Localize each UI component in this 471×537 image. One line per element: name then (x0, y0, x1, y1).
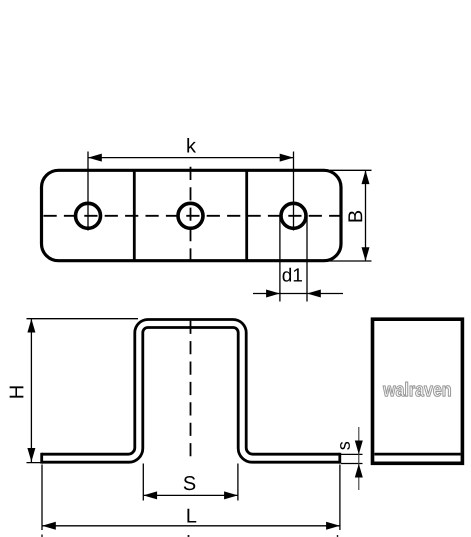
vertical dashed centerline (front view) (190, 321, 192, 458)
label S (184, 476, 196, 490)
side view rectangle (373, 319, 463, 463)
bottom stub middle (188, 535, 190, 537)
dimension d1 extension line left (279, 217, 281, 302)
label d1 (283, 268, 302, 282)
label k (187, 138, 196, 152)
dimension d1 extension line right (306, 217, 308, 302)
plate division line left (133, 170, 136, 260)
dimension s extension line top (341, 453, 363, 455)
dimension S extension line right (237, 464, 239, 501)
dimension B extension line top (330, 169, 372, 171)
label s (340, 442, 350, 450)
profile outer contour (front view) (42, 320, 340, 455)
plate outline (top view) (42, 170, 342, 260)
bottom stub left (41, 535, 43, 537)
label L (187, 509, 196, 523)
dimension k line with arrows (88, 154, 294, 162)
label B (348, 211, 362, 222)
dimension s line with arrows (355, 427, 363, 490)
dimension k extension line left (87, 152, 89, 231)
side view plate thickness line (374, 453, 460, 456)
profile left end cap (40, 453, 43, 464)
dimension k extension line right (293, 152, 295, 231)
profile inner contour (front view) (42, 328, 340, 463)
hole 1 (left) (76, 203, 101, 228)
profile right end cap (338, 453, 341, 464)
dimension L extension line left (41, 465, 43, 531)
dimension s extension line bottom (341, 463, 363, 465)
dimension B extension line bottom (310, 260, 372, 262)
hole 2 (middle) (178, 203, 203, 228)
label H (10, 386, 24, 397)
dimension L line with arrows (42, 522, 340, 530)
dimension B line with arrows (362, 170, 370, 261)
bottom stub right (337, 535, 339, 537)
dimension S line with arrows (143, 491, 238, 499)
dimension H line with arrows (27, 319, 35, 463)
hole 3 (right) (281, 203, 306, 228)
dimension L extension line right (339, 465, 341, 531)
dimension S extension line left (142, 464, 144, 501)
vertical dashed centerline middle hole (190, 167, 192, 266)
dimension d1 line with arrows (253, 290, 343, 298)
dimension H extension line top (27, 318, 139, 320)
dimension H extension line bottom (27, 462, 45, 464)
horizontal dashed centerline (top view) (44, 215, 343, 217)
walraven logo text (383, 382, 450, 396)
plate division line right (245, 170, 248, 260)
